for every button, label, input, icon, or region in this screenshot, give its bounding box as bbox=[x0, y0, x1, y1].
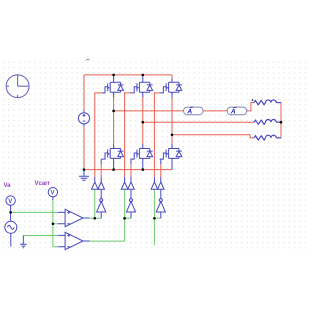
svg-text:Va: Va bbox=[4, 183, 12, 189]
svg-text:V: V bbox=[51, 191, 55, 197]
svg-text:Vcarr: Vcarr bbox=[35, 181, 51, 187]
svg-text:V: V bbox=[8, 199, 12, 205]
